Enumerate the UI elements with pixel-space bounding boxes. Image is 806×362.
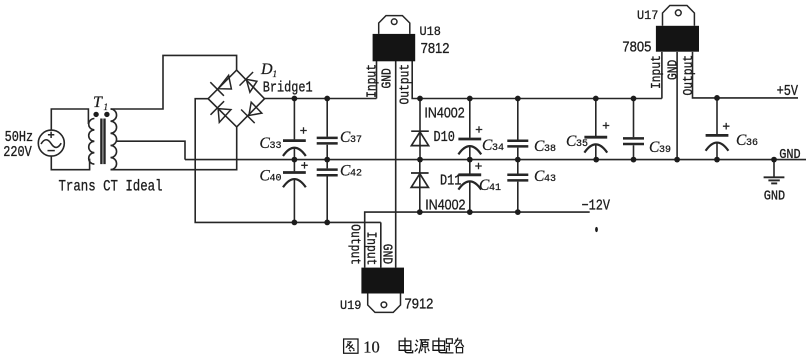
svg-text:Input: Input xyxy=(363,64,380,98)
svg-text:−12V: −12V xyxy=(582,198,611,215)
svg-text:38: 38 xyxy=(544,144,556,155)
svg-text:GND: GND xyxy=(379,244,396,265)
svg-text:7805: 7805 xyxy=(622,39,651,55)
svg-text:+5V: +5V xyxy=(777,84,798,101)
svg-text:33: 33 xyxy=(270,141,282,152)
svg-text:D11: D11 xyxy=(440,174,461,191)
svg-text:220V: 220V xyxy=(3,145,32,162)
svg-text:Input: Input xyxy=(363,232,380,266)
svg-text:Output: Output xyxy=(680,55,697,96)
svg-text:36: 36 xyxy=(746,138,758,149)
svg-text:1: 1 xyxy=(273,69,278,79)
svg-text:Bridge1: Bridge1 xyxy=(263,80,313,97)
svg-text:Output: Output xyxy=(396,64,413,105)
svg-text:34: 34 xyxy=(492,143,504,154)
svg-text:GND: GND xyxy=(664,59,681,80)
svg-text:IN4002: IN4002 xyxy=(424,104,464,120)
svg-text:U18: U18 xyxy=(420,24,441,39)
svg-text:D: D xyxy=(260,61,273,78)
svg-text:Trans CT Ideal: Trans CT Ideal xyxy=(59,178,163,196)
svg-text:Output: Output xyxy=(347,224,364,265)
svg-text:10: 10 xyxy=(363,338,380,357)
svg-text:1: 1 xyxy=(104,102,109,112)
svg-text:7812: 7812 xyxy=(421,40,450,56)
svg-text:U17: U17 xyxy=(637,9,658,24)
svg-text:41: 41 xyxy=(489,183,501,194)
svg-text:GND: GND xyxy=(378,68,395,89)
svg-text:D10: D10 xyxy=(434,130,455,147)
svg-text:42: 42 xyxy=(350,169,362,180)
svg-text:Input: Input xyxy=(648,55,665,89)
svg-text:T: T xyxy=(93,94,103,111)
svg-text:40: 40 xyxy=(270,174,282,185)
svg-text:U19: U19 xyxy=(340,298,361,313)
svg-text:IN4002: IN4002 xyxy=(425,196,465,212)
svg-text:GND: GND xyxy=(779,146,801,162)
svg-text:37: 37 xyxy=(350,135,362,146)
svg-text:GND: GND xyxy=(764,188,786,204)
svg-text:35: 35 xyxy=(576,139,588,150)
svg-text:43: 43 xyxy=(544,174,556,185)
svg-text:39: 39 xyxy=(659,145,671,156)
svg-text:7912: 7912 xyxy=(405,296,434,312)
